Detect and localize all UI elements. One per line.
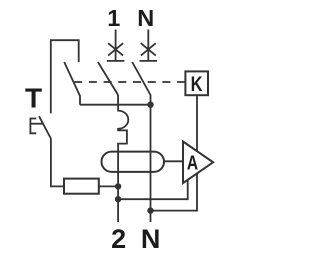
svg-text:N: N — [137, 5, 154, 31]
switch blade test pole — [64, 62, 80, 105]
wire neutral conductor down — [150, 105, 152, 222]
svg-text:2: 2 — [111, 224, 126, 254]
test button T actuator — [30, 116, 51, 138]
wire toroid secondary to amplifier — [164, 160, 183, 162]
terminal symbol N (clamp X) — [140, 30, 158, 61]
thermal-magnetic release + phase conductor down — [118, 95, 128, 222]
svg-text:1: 1 — [107, 5, 120, 31]
amplifier A — [183, 142, 213, 184]
relay / trip coil K — [185, 71, 208, 95]
svg-text:N: N — [141, 224, 161, 254]
wire cross link (test contact to N node) — [80, 104, 151, 106]
svg-text:K: K — [191, 73, 203, 96]
wire test button to resistor — [51, 139, 64, 187]
svg-text:A: A — [187, 153, 198, 175]
junction node phase-resistor — [115, 183, 121, 189]
junction node phase-amplifier — [115, 196, 121, 202]
wire amplifier supply to phase node — [118, 180, 188, 199]
wire resistor to phase node — [99, 185, 118, 187]
current transformer toroid — [102, 152, 165, 172]
switch blade pole 1 — [98, 62, 118, 95]
resistor R (test resistor) — [64, 179, 99, 194]
switch blade pole N — [132, 62, 150, 105]
svg-text:T: T — [25, 82, 42, 113]
terminal symbol 1 (clamp X) — [107, 30, 125, 61]
junction node neutral-K — [147, 207, 153, 213]
trip linkage (dashed) to K — [74, 81, 186, 83]
wire test-circuit feed + staple (fixed contact of test pole) — [51, 40, 79, 113]
junction node N top — [147, 102, 153, 108]
wire trip coil K to neutral node — [151, 95, 198, 211]
